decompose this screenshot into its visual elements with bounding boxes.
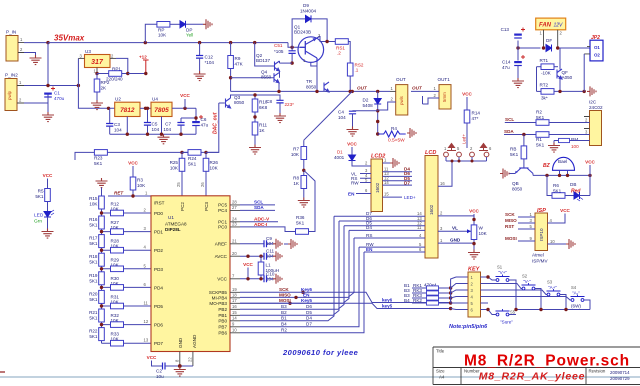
wire LCD2 pin15 LED+ — [383, 192, 416, 201]
svg-text:DB: DB — [570, 182, 576, 187]
svg-text:Key6: Key6 — [301, 287, 312, 292]
wire R9 to Q4 base — [231, 77, 274, 79]
connector P_IN — [6, 30, 24, 62]
svg-text:Yell: Yell — [186, 33, 193, 38]
svg-text:ATMEGA8: ATMEGA8 — [165, 222, 187, 227]
svg-text:FAN: FAN — [539, 23, 552, 29]
svg-text:14: 14 — [384, 180, 389, 185]
svg-text:R16: R16 — [89, 217, 98, 222]
svg-text:+12: +12 — [139, 55, 147, 60]
junctions gnd rail — [126, 133, 129, 136]
svg-text:4001: 4001 — [334, 155, 345, 160]
ground C12 — [194, 71, 206, 81]
wire LCD pin2 VCC — [438, 209, 480, 225]
junction RK right dots — [449, 286, 452, 289]
svg-text:5K1: 5K1 — [89, 260, 98, 265]
power port +12 — [139, 55, 149, 74]
wire Q1 emitter down — [311, 62, 317, 91]
svg-text:10K: 10K — [210, 166, 219, 171]
svg-text:R6: R6 — [553, 183, 559, 188]
svg-text:W: W — [479, 226, 484, 231]
svg-text:20090714: 20090714 — [610, 370, 630, 375]
capacitor C8 223 — [253, 93, 294, 113]
power VCC LED column — [43, 173, 53, 189]
thermistor RT1 — [537, 58, 559, 76]
wire DAC_out vertical — [206, 103, 219, 152]
svg-text:1K: 1K — [293, 181, 300, 186]
wire buttons common rail — [516, 309, 590, 311]
LED Grn — [34, 210, 54, 229]
connector KEY — [468, 267, 481, 318]
svg-text:/RST: /RST — [154, 201, 165, 206]
svg-text:U4: U4 — [152, 97, 158, 102]
svg-text:S1: S1 — [497, 265, 503, 270]
ground QB — [500, 169, 509, 179]
svg-text:AVCC: AVCC — [215, 254, 228, 259]
button S4 A- — [571, 285, 591, 310]
resistor RP1 220/240 — [97, 67, 128, 82]
svg-text:1602: 1602 — [375, 182, 380, 193]
junction ladder node 6 — [100, 323, 103, 326]
resistor R16 5K1 — [89, 216, 104, 229]
svg-text:R24: R24 — [188, 156, 197, 161]
svg-text:ADC-I: ADC-I — [254, 222, 268, 228]
svg-text:PD5: PD5 — [154, 304, 163, 309]
svg-text:MISO: MISO — [505, 218, 517, 223]
junction (78.4,85.5) — [77, 84, 80, 87]
svg-text:D4: D4 — [366, 225, 372, 230]
svg-text:104: 104 — [114, 128, 122, 133]
svg-text:5K1: 5K1 — [89, 223, 98, 228]
svg-text:R5: R5 — [38, 189, 44, 194]
resistor R3 10K — [130, 177, 146, 196]
wire LCD2 left pins — [348, 168, 371, 197]
svg-text:Key5: Key5 — [301, 298, 312, 303]
svg-text:OUT: OUT — [412, 86, 423, 91]
svg-text:BD243B: BD243B — [294, 30, 311, 35]
IC U1 ATMEGA8 — [151, 196, 230, 352]
IC U1 bottom pins GND AGND — [178, 334, 197, 348]
svg-text:1K: 1K — [259, 128, 266, 133]
junction rail RP branch — [144, 41, 147, 44]
IC U1 top pins PC2 PC3 — [180, 202, 209, 211]
svg-text:U3: U3 — [85, 49, 91, 54]
IC U1 right pin stubs — [230, 205, 240, 333]
svg-text:C2: C2 — [156, 369, 162, 374]
wire chip ground bottom — [167, 365, 193, 367]
svg-text:17: 17 — [232, 298, 237, 303]
svg-text:R20: R20 — [89, 291, 98, 296]
ground AREF — [273, 239, 282, 249]
svg-text:RT2: RT2 — [540, 83, 549, 88]
junction RP1 right — [126, 72, 129, 75]
svg-text:25: 25 — [176, 182, 181, 187]
resistor R24 5K1 — [182, 150, 201, 167]
svg-text:5K1: 5K1 — [89, 278, 98, 283]
resistor RS2 .1 — [347, 63, 363, 92]
svg-text:C6: C6 — [201, 117, 207, 122]
sheet border bottom — [0, 376, 640, 378]
svg-text:R8: R8 — [293, 176, 299, 181]
svg-text:C7: C7 — [165, 122, 171, 127]
ground C14 — [512, 78, 524, 88]
svg-text:5K1: 5K1 — [89, 316, 98, 321]
svg-text:Grn: Grn — [34, 219, 42, 225]
svg-text:S3: S3 — [547, 280, 553, 285]
button S3 A+ — [547, 280, 567, 310]
resistor R23 5K1 — [94, 150, 107, 166]
svg-text:PD3: PD3 — [154, 267, 163, 272]
svg-text:DF: DF — [546, 38, 552, 43]
svg-text:D1: D1 — [337, 150, 343, 155]
svg-text:R2: R2 — [281, 328, 287, 333]
resistor R5 5K1 — [35, 189, 50, 212]
resistor R27 10K — [102, 220, 152, 234]
svg-text:47*: 47* — [472, 116, 479, 121]
svg-text:*104: *104 — [205, 60, 215, 65]
button S1 V+ — [496, 265, 517, 310]
button S2 V- — [522, 274, 542, 310]
svg-text:P_IN: P_IN — [6, 30, 16, 35]
capacitor C7 104 — [163, 118, 184, 134]
svg-text:20090729: 20090729 — [610, 376, 630, 381]
svg-text:5K1: 5K1 — [188, 162, 197, 167]
resistor R7 10K — [291, 140, 307, 175]
power VCC D1 — [347, 142, 357, 156]
svg-text:PC4: PC4 — [218, 208, 227, 213]
diode D2 5408 — [363, 91, 382, 135]
regulator U2 7812 — [115, 97, 151, 117]
wire KEY pins to buttons — [481, 277, 572, 315]
svg-text:20090610 for yleee: 20090610 for yleee — [282, 348, 358, 357]
svg-text:Size: Size — [436, 369, 445, 374]
svg-text:24C02: 24C02 — [589, 105, 603, 110]
svg-text:0.5>5W: 0.5>5W — [388, 138, 405, 144]
ground LED — [42, 229, 54, 239]
svg-text:104: 104 — [152, 127, 160, 132]
junction +12 — [144, 72, 147, 75]
svg-text:OUT1: OUT1 — [438, 77, 451, 82]
transistor QF A050 — [557, 48, 573, 91]
svg-text:26: 26 — [200, 182, 205, 187]
svg-text:21: 21 — [232, 238, 237, 243]
svg-text:470u: 470u — [54, 96, 65, 101]
svg-text:R3: R3 — [137, 178, 143, 183]
svg-text:22: 22 — [188, 357, 193, 362]
connector LCD2 — [371, 154, 385, 212]
svg-text:R7: R7 — [293, 147, 299, 152]
svg-text:C5: C5 — [152, 122, 158, 127]
svg-text:AGND: AGND — [192, 334, 197, 348]
diode DB Red — [570, 182, 590, 201]
svg-text:PB6: PB6 — [218, 331, 227, 336]
wire 317 pin2 over to RP1 right node — [116, 58, 128, 73]
svg-text:LED+: LED+ — [404, 195, 416, 200]
wire ADC stubs — [240, 222, 278, 227]
svg-text:DAC_out: DAC_out — [213, 112, 219, 134]
svg-text:3k*: 3k* — [541, 96, 548, 101]
svg-text:B4: B4 — [281, 322, 287, 327]
svg-text:PC2: PC2 — [180, 202, 185, 211]
svg-text:R21: R21 — [89, 310, 98, 315]
svg-text:AREF: AREF — [215, 242, 227, 247]
svg-text:*105: *105 — [274, 49, 284, 54]
svg-text:10K: 10K — [479, 231, 488, 236]
wire main 35V rail — [48, 43, 300, 48]
svg-text:C12: C12 — [205, 55, 214, 60]
ground RM — [548, 143, 560, 153]
svg-text:6K8: 6K8 — [259, 105, 268, 110]
wire ADC-V tap diagonal — [304, 170, 315, 192]
svg-text:P_IN2: P_IN2 — [5, 73, 18, 78]
svg-text:C8: C8 — [266, 99, 272, 104]
svg-text:PD0: PD0 — [154, 211, 163, 216]
ground C8 — [274, 113, 286, 123]
svg-text:QB: QB — [512, 181, 519, 186]
svg-text:OUT: OUT — [396, 77, 406, 82]
svg-text:Bael: Bael — [558, 159, 567, 164]
svg-text:S4: S4 — [571, 285, 577, 290]
svg-text:pwls: pwls — [399, 95, 404, 105]
regulator U4 7805 — [151, 97, 196, 117]
wire LCD2 data pins — [383, 167, 413, 186]
junction SDA RB — [522, 133, 525, 136]
svg-text:5K1: 5K1 — [89, 334, 98, 339]
svg-text:B3: B3 — [281, 304, 287, 309]
svg-text:R17: R17 — [89, 236, 98, 241]
svg-text:47u: 47u — [502, 65, 510, 70]
junction C51 base node — [290, 46, 293, 49]
svg-text:10K: 10K — [137, 183, 146, 188]
svg-text:28: 28 — [232, 200, 237, 205]
ground ladder top — [96, 178, 108, 188]
IC U1 left pin names PD0-PD7 — [154, 211, 163, 346]
svg-text:15: 15 — [232, 310, 237, 315]
svg-text:MOSI: MOSI — [279, 298, 291, 303]
svg-text:1N4004: 1N4004 — [300, 9, 317, 14]
svg-text:BZ: BZ — [543, 163, 551, 169]
wire Q1 collector to RS1 — [320, 36, 335, 42]
resistor R21 5K1 — [89, 309, 104, 322]
svg-text:14: 14 — [232, 315, 237, 320]
svg-text:RST: RST — [505, 224, 514, 229]
ground chip — [174, 367, 186, 377]
svg-text:EN: EN — [366, 247, 373, 252]
svg-text:1602: 1602 — [429, 204, 434, 215]
regulator U3 317 — [78, 49, 116, 74]
resistor R11 1K — [252, 122, 267, 145]
connector OUT — [378, 77, 408, 115]
svg-text:47K: 47K — [235, 62, 244, 67]
svg-text:10K: 10K — [158, 33, 167, 38]
net arrow pads Led — [447, 144, 488, 151]
power VCC AVCC — [243, 262, 253, 279]
capacitor C11 104 AVCC — [240, 249, 275, 260]
svg-text:PC5: PC5 — [218, 203, 227, 208]
junction ladder node 1 — [100, 230, 103, 233]
svg-text:M8_R/2R_Power.sch: M8_R/2R_Power.sch — [464, 353, 630, 370]
svg-text:PB7: PB7 — [218, 325, 227, 330]
resistor RM 100 — [554, 137, 590, 149]
wire ISP left pins — [505, 212, 535, 241]
svg-text:8550: 8550 — [261, 75, 272, 80]
wire fan rail — [518, 47, 590, 49]
IC U1 right pin names — [209, 203, 228, 336]
resistor R29 10K — [102, 257, 152, 271]
svg-text:"A-": "A-" — [572, 291, 580, 296]
resistor R25 10K — [170, 152, 185, 196]
capacitor C51 *105 — [274, 43, 296, 65]
svg-text:VL: VL — [452, 226, 458, 231]
wire RT ladder left — [536, 67, 538, 92]
svg-text:GND: GND — [450, 238, 461, 243]
svg-text:LED: LED — [34, 213, 44, 219]
resistor R33 10K — [102, 332, 152, 346]
ground DP right — [203, 19, 212, 29]
svg-text:C13: C13 — [501, 27, 510, 32]
transistor Q1 BD243B — [294, 25, 324, 64]
svg-text:D6: D6 — [306, 304, 312, 309]
svg-text:PD7: PD7 — [154, 341, 163, 346]
svg-text:10: 10 — [550, 239, 555, 244]
junction ladder node 4 — [100, 286, 103, 289]
junction C12 — [198, 41, 201, 44]
svg-text:C1: C1 — [54, 91, 60, 96]
wire VCC pin row — [240, 278, 264, 280]
svg-text:10: 10 — [232, 327, 237, 332]
svg-text:A050: A050 — [562, 75, 573, 80]
svg-text:RP2: RP2 — [101, 80, 110, 85]
svg-text:11: 11 — [417, 225, 422, 230]
ground P_IN — [30, 55, 42, 65]
junction R9 bottom branch — [229, 76, 232, 79]
svg-text:Led+: Led+ — [462, 134, 467, 144]
svg-text:EN: EN — [348, 192, 355, 197]
svg-text:U1: U1 — [168, 215, 174, 220]
svg-text:16: 16 — [232, 304, 237, 309]
resistor R12 10K — [102, 202, 152, 216]
net labels chip right rows — [279, 287, 393, 333]
svg-text:12: 12 — [144, 319, 149, 324]
diode D9 1N4004 loop — [292, 3, 327, 47]
transistor Q2 BD137 — [256, 53, 280, 78]
resistor R6 5K1 — [547, 175, 574, 198]
ground caps rail — [158, 134, 170, 144]
capacitor C10 104 — [264, 272, 275, 283]
svg-text:PC0: PC0 — [218, 225, 227, 230]
svg-text:R9: R9 — [235, 56, 241, 61]
wire x78.4 vertical 317 input / regulators input — [78, 58, 114, 108]
svg-text:BD137: BD137 — [256, 58, 270, 63]
connector I2C 24C02 — [584, 100, 603, 146]
svg-text:5mm: 5mm — [442, 92, 447, 102]
wire buzzer rail — [533, 174, 590, 176]
svg-text:7812: 7812 — [120, 107, 135, 114]
diode D1 4001 — [334, 150, 371, 167]
svg-text:R4: R4 — [391, 126, 397, 131]
svg-text:RK2: RK2 — [413, 298, 422, 303]
wire bus verticals — [240, 216, 364, 332]
wire key6 row — [240, 292, 451, 302]
svg-text:47u: 47u — [201, 123, 209, 128]
svg-text:D7: D7 — [404, 181, 410, 186]
connector ISP — [532, 208, 549, 264]
wire diagonal OUT to R7 — [304, 91, 352, 140]
svg-text:R1: R1 — [536, 137, 542, 142]
svg-text:"V-": "V-" — [523, 279, 531, 284]
transistor TR 8050 — [306, 79, 329, 92]
svg-text:C3: C3 — [114, 122, 120, 127]
wire LCD left data rows — [334, 211, 425, 252]
junction ladder node 5 — [100, 304, 103, 307]
ground AVCC — [273, 251, 282, 261]
potentiometer W 10K — [438, 225, 488, 250]
resistor R10 6K8 — [252, 99, 268, 122]
wire LCD pin1 GND — [438, 238, 476, 246]
svg-text:C51: C51 — [274, 43, 283, 48]
wire LCD pin16 — [438, 160, 487, 187]
svg-text:PD2: PD2 — [154, 248, 163, 253]
svg-text:10u: 10u — [156, 374, 164, 379]
svg-text:S2: S2 — [522, 274, 528, 279]
power VCC R3 — [128, 161, 138, 178]
svg-text:PD1: PD1 — [154, 230, 163, 235]
svg-text:Atmel: Atmel — [532, 253, 544, 258]
svg-text:R11: R11 — [259, 123, 268, 128]
svg-text:10K: 10K — [89, 202, 98, 207]
wire LCD2 pin1 ground — [383, 162, 391, 164]
resistor R9 47K — [228, 43, 244, 92]
ground mid bus — [288, 239, 297, 249]
transistor Q3 8050 — [219, 91, 255, 111]
svg-text:8050: 8050 — [234, 100, 245, 105]
junction ladder node 3 — [100, 267, 103, 270]
svg-text:C14: C14 — [502, 60, 511, 65]
capacitor C2 10u — [147, 355, 167, 379]
svg-text:GND: GND — [178, 337, 183, 348]
svg-text:DIP28L: DIP28L — [165, 227, 181, 232]
svg-text:key5: key5 — [382, 303, 393, 308]
svg-text:13: 13 — [144, 338, 149, 343]
svg-text:5408: 5408 — [363, 103, 374, 108]
svg-text:5K1: 5K1 — [536, 143, 545, 148]
ground C4 — [347, 127, 359, 137]
svg-text:SDA: SDA — [254, 205, 264, 210]
wire P_IN2 pin2 down — [24, 94, 48, 103]
resistor R19 5K1 — [89, 272, 104, 285]
svg-text:RW: RW — [351, 181, 359, 186]
svg-text:B2: B2 — [281, 310, 287, 315]
svg-text:SCK: SCK — [505, 212, 515, 217]
ground rail under caps — [110, 133, 196, 135]
svg-text:10K: 10K — [291, 152, 300, 157]
wire cap top link — [181, 117, 196, 119]
wire Q2 branch — [255, 43, 274, 66]
resistor R15 10K — [89, 188, 104, 344]
svg-text:16: 16 — [440, 181, 445, 186]
resistor R17 5K1 — [89, 235, 104, 248]
svg-text:I2C: I2C — [589, 100, 597, 105]
svg-text:20: 20 — [232, 251, 237, 256]
svg-text:key6: key6 — [382, 297, 393, 302]
svg-text:ISP/MV: ISP/MV — [532, 259, 549, 264]
svg-text:.1: .1 — [355, 68, 359, 73]
buzzer BZ — [543, 157, 575, 175]
resistor R32 10K — [102, 313, 152, 327]
junction R25 node — [180, 151, 183, 154]
connector OUT1 — [411, 77, 451, 109]
svg-text:8050: 8050 — [306, 85, 317, 90]
